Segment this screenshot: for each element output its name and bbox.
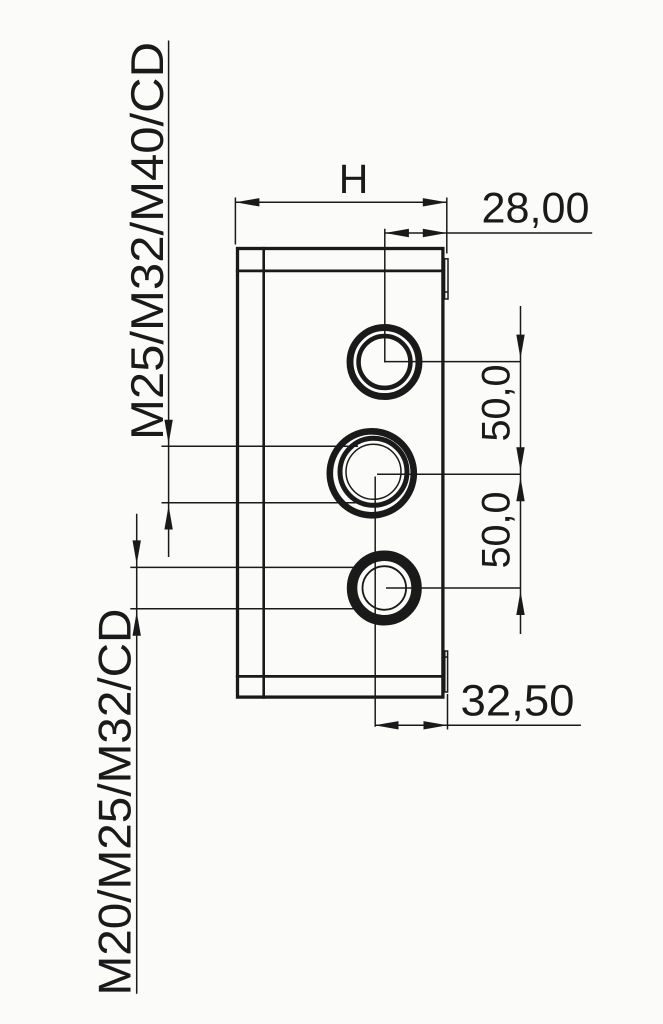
box lid step vertical line bbox=[262, 247, 265, 699]
dim 32,50 arrow left bbox=[375, 721, 399, 729]
dim H extension line right bbox=[446, 198, 448, 254]
right chain arrow down at top knockout line bbox=[516, 335, 524, 359]
knockout middle: outer ring bbox=[330, 431, 414, 515]
svg-text:32,50: 32,50 bbox=[461, 676, 575, 725]
knockout middle: middle ring bbox=[340, 438, 407, 505]
leader line for label M20/M25/M32/CD bbox=[136, 514, 138, 994]
svg-text:50,0: 50,0 bbox=[475, 365, 519, 442]
leader arrow down at lower pair top line bbox=[133, 540, 141, 564]
dim 28,00 dimension line bbox=[385, 232, 592, 234]
right chain arrow up at bottom knockout line bbox=[516, 591, 524, 615]
bottom-right mounting clip bbox=[445, 651, 448, 692]
dim H dimension line bbox=[235, 201, 446, 203]
knockout top: outer ring bbox=[350, 328, 419, 397]
right dim chain line (50,0 / 50,0) bbox=[520, 306, 522, 634]
right chain arrow down at middle knockout line bbox=[516, 447, 524, 471]
svg-text:H: H bbox=[339, 156, 369, 202]
dim 28,00 arrow left bbox=[385, 229, 409, 237]
box base inner bottom edge line bbox=[236, 675, 445, 678]
knockout top: inner thin ring bbox=[360, 337, 409, 386]
dim 32,50 arrow right bbox=[424, 721, 448, 729]
box lid inner top edge line bbox=[236, 270, 445, 273]
leader arrow down at upper pair top line bbox=[164, 420, 172, 444]
centerline horizontal from bottom knockout center to right dim chain bbox=[386, 587, 521, 589]
dim H extension line left bbox=[234, 198, 236, 245]
leader arrow up at lower pair bottom line bbox=[133, 612, 141, 636]
centerline horizontal from top knockout center to right dim chain bbox=[386, 361, 521, 363]
centerline horizontal from middle knockout center to right dim chain bbox=[377, 473, 521, 475]
right chain arrow up at middle knockout line bbox=[516, 477, 524, 501]
top-right mounting clip bbox=[445, 259, 448, 299]
knockout middle: inner thin ring bbox=[346, 444, 401, 499]
svg-text:M25/M32/M40/CD: M25/M32/M40/CD bbox=[121, 42, 173, 440]
dim H arrow left bbox=[235, 198, 259, 206]
knockout bottom: middle ring bbox=[355, 559, 414, 618]
dim 32,50 extension line right bbox=[447, 694, 449, 730]
dim 32,50 dimension line bbox=[375, 724, 581, 726]
left dim line upper pair: line at middle knockout bottom bbox=[162, 502, 364, 504]
box outer outline bbox=[238, 249, 443, 698]
dim 28,00 arrow right bbox=[423, 229, 447, 237]
centerline vertical from dim 28,00 to top knockout center bbox=[384, 229, 386, 363]
dim H arrow right bbox=[423, 198, 447, 206]
svg-text:M20/M25/M32/CD: M20/M25/M32/CD bbox=[89, 609, 141, 996]
centerline vertical from middle knockout center to dim 32,50 bbox=[374, 477, 376, 727]
svg-text:28,00: 28,00 bbox=[482, 185, 590, 233]
left dim line upper pair: line at middle knockout top bbox=[162, 445, 359, 447]
knockout bottom: outer ring bbox=[350, 554, 419, 623]
knockout bottom: inner thin ring bbox=[363, 566, 407, 610]
knockout top: middle ring bbox=[358, 335, 411, 388]
svg-text:50,0: 50,0 bbox=[475, 492, 519, 569]
left dim line lower pair: line at bottom knockout bottom bbox=[130, 608, 361, 610]
leader line for label M25/M32/M40/CD bbox=[168, 41, 170, 558]
leader arrow up at upper pair bottom line bbox=[164, 506, 172, 530]
left dim line lower pair: line at bottom knockout top bbox=[130, 566, 361, 568]
